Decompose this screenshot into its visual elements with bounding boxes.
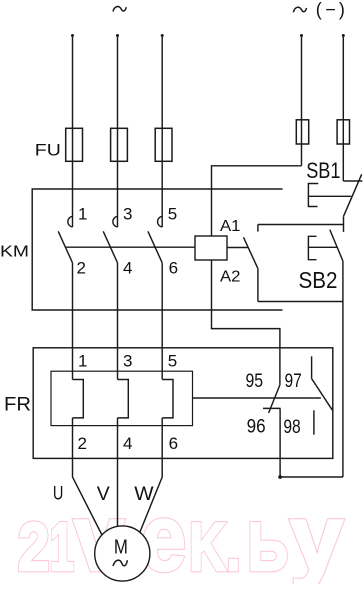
AC supply tilde right [293, 7, 306, 12]
svg-text:2: 2 [77, 259, 86, 278]
svg-text:K: K [189, 509, 226, 584]
svg-text:Ь: Ь [248, 509, 289, 584]
fuse FU2 [111, 128, 128, 161]
svg-text:FR: FR [4, 394, 31, 415]
AC supply label ~ (three-phase) [113, 7, 126, 12]
supply terminal dots [71, 34, 345, 479]
wire phase L1 FR to motor [73, 418, 103, 535]
FR NO contact 98 stub [313, 410, 315, 434]
SB1 pushrod [308, 195, 351, 197]
thermal relay FR enclosure box [33, 348, 333, 459]
svg-text:6: 6 [169, 434, 178, 453]
wire coil A2 down jog [212, 260, 280, 384]
wire SB2 bottom drop [342, 261, 344, 477]
svg-text:(: ( [316, 0, 322, 19]
wire 96 down and return [279, 408, 281, 477]
svg-text:W: W [134, 484, 153, 505]
fuse FU4 control [296, 120, 308, 144]
svg-text:6: 6 [169, 259, 178, 278]
FR heater element L3 [162, 380, 173, 418]
svg-text:1: 1 [50, 509, 75, 584]
svg-text:97: 97 [285, 371, 302, 392]
FR heater element L1 [73, 380, 84, 418]
svg-text:4: 4 [123, 259, 132, 278]
SB1 pushbutton actuator bracket [308, 184, 318, 207]
SB2 blade [330, 230, 343, 261]
wire rail aux/SB2 bottom [258, 301, 343, 303]
FR NC contact 95-96 seat tick [263, 407, 281, 409]
svg-text:SB2: SB2 [299, 267, 338, 293]
svg-text:1: 1 [78, 205, 87, 224]
wire phase L3 through KM to FR heater [161, 263, 163, 380]
svg-text:5: 5 [168, 351, 177, 370]
fuse FU1 [66, 128, 83, 161]
KM main contact 5-6 fixed arc [158, 216, 163, 227]
wire phase L3 FR to motor [140, 418, 162, 533]
svg-text:A2: A2 [220, 269, 241, 286]
svg-text:KM: KM [0, 243, 29, 260]
SB2 pushbutton actuator bracket [308, 236, 316, 259]
KM main contact 1-2 blade [58, 231, 72, 262]
svg-text:5: 5 [168, 205, 177, 224]
SB1 fixed contact tick [343, 180, 362, 182]
mechanical linkage coil to aux contact [227, 247, 248, 249]
KM main contact 3-4 blade [103, 231, 117, 262]
svg-text:96: 96 [247, 416, 266, 437]
svg-text:.: . [226, 509, 241, 584]
KM auxiliary contact fixed stub [257, 225, 259, 232]
fuse FU5 control [337, 120, 349, 144]
KM auxiliary contact blade [244, 237, 258, 268]
svg-text:2: 2 [78, 434, 87, 453]
svg-text:V: V [97, 484, 110, 505]
svg-text:4: 4 [123, 434, 132, 453]
svg-text:98: 98 [283, 417, 300, 438]
svg-text:3: 3 [123, 205, 132, 224]
wire phase L1 top [72, 35, 74, 227]
SB1 blade [344, 174, 362, 216]
junction dot bottom return [278, 475, 282, 479]
svg-text:−: − [325, 0, 336, 19]
svg-text:SB1: SB1 [306, 158, 340, 183]
contactor KM enclosure box [32, 189, 282, 310]
svg-text:M: M [114, 537, 128, 559]
svg-text:3: 3 [123, 351, 132, 370]
svg-text:2: 2 [18, 509, 50, 584]
svg-text:U: U [53, 483, 64, 504]
wire phase L2 top [117, 35, 119, 227]
coil KM box [195, 236, 227, 260]
wire phase L2 through KM to FR heater [117, 263, 119, 380]
fuse FU3 [155, 128, 172, 161]
wire phase L3 top [161, 35, 163, 227]
svg-text:): ) [339, 0, 345, 19]
svg-text:y: y [290, 485, 343, 584]
FR NC contact 95-96 blade [269, 384, 281, 413]
SB1 lower stub to SB2 [343, 216, 345, 232]
svg-text:FU: FU [35, 141, 61, 160]
motor M circle [95, 526, 150, 581]
FR heater inner box [51, 371, 193, 425]
svg-text:A1: A1 [220, 218, 241, 235]
wire control L top [301, 35, 303, 166]
SB2 pushrod [308, 246, 337, 248]
FR NO contact 97-98 blade [312, 379, 333, 411]
watermark 21vek.by [18, 485, 343, 589]
motor AC tilde [113, 560, 127, 566]
wire control N top [342, 35, 344, 181]
mechanical linkage main contacts [65, 246, 195, 248]
wire aux contact bottom [257, 269, 259, 302]
KM main contact 3-4 fixed arc [113, 216, 118, 227]
KM main contact 5-6 blade [148, 231, 162, 262]
FR heater element L2 [118, 380, 129, 418]
wire phase L1 through KM to FR heater [72, 263, 74, 380]
wire rail SB1 to SB2/aux top [258, 224, 344, 226]
svg-text:1: 1 [78, 351, 87, 370]
KM main contact 1-2 fixed arc [68, 216, 73, 227]
svg-text:95: 95 [246, 371, 264, 392]
wire control fuse to coil A1 [212, 166, 302, 236]
wire bottom return [280, 476, 343, 478]
wire phase L2 FR to motor [117, 418, 119, 527]
mechanical linkage FR heaters to contacts [193, 397, 321, 399]
FR NO contact 97 stub [311, 356, 313, 378]
